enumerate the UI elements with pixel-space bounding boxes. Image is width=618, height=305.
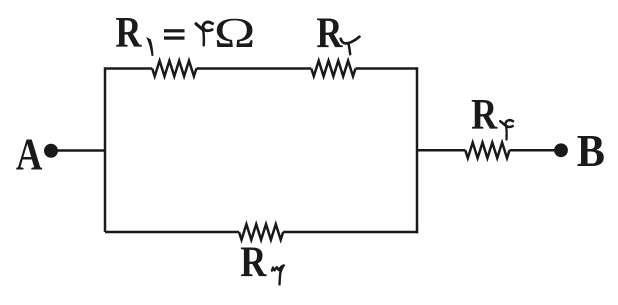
wire top-right segment (356, 67, 418, 70)
svg-text:R: R (115, 8, 142, 57)
equals sign (164, 29, 185, 32)
label R1 subscript 1 (Persian) (146, 37, 153, 56)
svg-text:B: B (577, 125, 605, 176)
label R2 subscript 2 (Persian) (341, 37, 360, 55)
resistor R2 (311, 61, 355, 77)
label R3 subscript 3 (Persian) (272, 265, 284, 284)
resistor R1 (152, 61, 196, 77)
wire from node A to left branch (51, 149, 105, 152)
wire bottom-right segment (283, 231, 418, 234)
wire bottom-left segment (105, 231, 239, 234)
node A terminal dot (44, 144, 58, 158)
wire top-left segment (105, 69, 152, 233)
resistor R4 (465, 143, 509, 159)
wire from right branch to R4 (417, 149, 465, 152)
svg-text:R: R (471, 89, 498, 138)
svg-text:Ω: Ω (214, 9, 256, 56)
node B terminal dot (554, 143, 568, 157)
wire top-middle segment (196, 67, 311, 70)
resistor R3 (239, 224, 283, 240)
svg-text:A: A (16, 129, 43, 180)
svg-text:R: R (316, 8, 343, 57)
label R4 subscript 4 (Persian) (500, 120, 513, 139)
value digit 4 (Persian) (196, 22, 213, 45)
wire from R4 to node B (510, 149, 562, 152)
wire right vertical (416, 67, 419, 233)
svg-text:R: R (240, 237, 267, 286)
